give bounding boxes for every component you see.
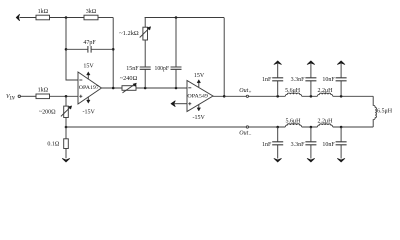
svg-text:15V: 15V — [194, 73, 205, 79]
capacitor C 3.3nF (Out+) — [310, 64, 312, 97]
capacitor C 10nF (Out+) — [340, 64, 342, 97]
resistor ~240R variable — [122, 86, 136, 91]
wire OPA549 output to feedback vertical — [213, 18, 224, 97]
svg-text:10nF: 10nF — [322, 142, 335, 148]
node Out+ terminal — [246, 95, 248, 97]
svg-text:1nF: 1nF — [262, 77, 272, 83]
inductor L 5.6uH (Out+) — [285, 93, 301, 96]
node Out- terminal — [246, 126, 248, 128]
node noninverting junction — [65, 95, 68, 98]
inductor L 2.2uH (Out-) — [317, 124, 332, 127]
node 47pF right junction — [112, 48, 115, 51]
wire top rail left — [20, 17, 37, 19]
op-amp U1 -15V supply arrow — [87, 97, 89, 101]
wire comp branch upper — [144, 18, 146, 28]
svg-text:VIN: VIN — [6, 94, 15, 102]
svg-text:3.3nF: 3.3nF — [291, 77, 306, 83]
svg-text:3.3nF: 3.3nF — [291, 142, 306, 148]
capacitor C 47pF — [66, 48, 113, 50]
node junctions Out+ — [276, 95, 279, 98]
svg-text:5.6μH: 5.6μH — [285, 88, 301, 94]
svg-text:15V: 15V — [83, 63, 94, 69]
svg-text:2.2μH: 2.2μH — [317, 119, 333, 125]
node OPA549 noninverting arrow — [171, 101, 175, 107]
wire 15nF down — [144, 69, 146, 88]
ground (3.3nF) — [307, 159, 314, 163]
svg-text:3kΩ: 3kΩ — [86, 9, 97, 15]
svg-text:100pF: 100pF — [155, 66, 170, 72]
wire 1k to noninverting input — [50, 95, 79, 97]
node output junctions — [112, 87, 115, 90]
ground (1nF) — [274, 159, 281, 163]
resistor 1k (top) — [36, 15, 50, 20]
svg-text:10nF: 10nF — [322, 77, 335, 83]
node Out- left junction — [65, 126, 68, 129]
svg-text:Out−: Out− — [239, 130, 251, 138]
resistor 0.1R — [65, 127, 67, 139]
ground (10nF) — [337, 159, 344, 163]
wire 3k right to corner — [98, 17, 113, 19]
op-amp U1 +15V supply arrow — [87, 74, 89, 80]
svg-text:5.6μH: 5.6μH — [285, 119, 301, 125]
svg-text:0.1Ω: 0.1Ω — [47, 142, 60, 148]
resistor 1k (input) — [36, 94, 50, 99]
svg-text:-15V: -15V — [83, 109, 96, 115]
svg-text:1nF: 1nF — [262, 142, 272, 148]
svg-text:6.5μH: 6.5μH — [377, 108, 393, 114]
inductor L 6.5uH (vertical) — [373, 96, 376, 127]
resistor ~1.2k variable — [143, 27, 148, 40]
op-amp U2 OPA549 — [187, 81, 213, 112]
wire 100pF branch — [175, 18, 177, 89]
wire 1k to 3k — [50, 17, 85, 19]
node junction top — [65, 16, 68, 19]
op-amp U1 OPA197 — [78, 72, 102, 104]
svg-text:~1.2kΩ: ~1.2kΩ — [119, 31, 139, 37]
inductor L 5.6uH (Out-) — [285, 124, 301, 127]
svg-text:15nF: 15nF — [126, 66, 139, 72]
capacitor C 3.3nF (Out-) — [310, 127, 312, 159]
wire Vin — [21, 95, 36, 97]
svg-text:1kΩ: 1kΩ — [38, 88, 49, 94]
svg-text:OPA197: OPA197 — [79, 85, 99, 91]
wire OPA197 output — [102, 87, 188, 89]
op-amp U2 -15V supply arrow — [198, 104, 200, 109]
svg-text:-15V: -15V — [193, 115, 206, 121]
svg-text:OPA549: OPA549 — [187, 93, 208, 99]
resistor 3k — [84, 15, 98, 20]
node 100pF top junction — [175, 16, 178, 19]
node junctions Out- — [276, 126, 279, 129]
svg-text:47pF: 47pF — [83, 40, 96, 46]
capacitor C 15nF — [140, 67, 151, 69]
svg-text:Out+: Out+ — [239, 88, 251, 96]
capacitor C 1nF (Out+) — [277, 64, 279, 97]
capacitor C 100pF — [171, 67, 182, 69]
node 47pF left junction — [65, 48, 68, 51]
capacitor C 1nF (Out-) — [277, 127, 279, 159]
svg-text:~200Ω: ~200Ω — [39, 109, 56, 115]
resistor ~200R variable — [65, 96, 67, 106]
terminal Vin circle — [18, 95, 20, 97]
inductor L 2.2uH (Out+) — [317, 93, 332, 96]
svg-text:~240Ω: ~240Ω — [120, 76, 138, 82]
wire vertical feedback right — [112, 18, 114, 89]
wire top rail right (compensation) — [145, 17, 224, 19]
op-amp U2 +15V supply arrow — [198, 82, 200, 88]
wire Out- line — [66, 126, 373, 128]
capacitor C 10nF (Out-) — [340, 127, 342, 159]
node feedback input arrow (top-left) — [16, 14, 19, 21]
wire 1.2k to 15nF — [144, 40, 146, 67]
wire Out+ line — [224, 95, 373, 97]
wire vertical inverting-input — [66, 18, 78, 81]
svg-text:1kΩ: 1kΩ — [38, 9, 49, 15]
ground (0.1R) — [62, 159, 69, 163]
svg-text:2.2μH: 2.2μH — [317, 88, 333, 94]
